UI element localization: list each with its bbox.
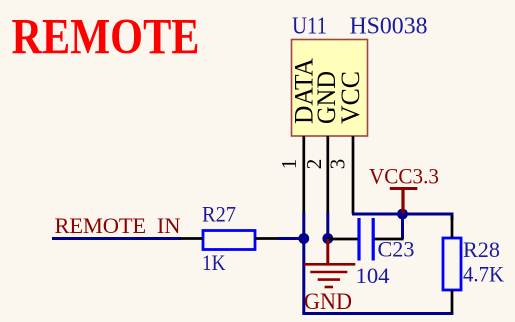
capacitor C23 right pin (375, 238, 404, 241)
svg-text:1: 1 (277, 159, 301, 170)
svg-text:HS0038: HS0038 (350, 14, 428, 40)
resistor R28 body (443, 238, 461, 290)
svg-text:VCC: VCC (335, 71, 365, 124)
wire REMOTE IN horizontal (52, 237, 181, 240)
svg-text:1K: 1K (202, 250, 226, 275)
resistor R28 top pin (451, 216, 454, 239)
svg-text:R27: R27 (202, 202, 236, 227)
junction node B (322, 233, 333, 244)
ground symbol bar 3 (318, 278, 340, 281)
capacitor C23 left plate (357, 218, 360, 261)
power port VCC3.3 bar (390, 187, 418, 190)
svg-text:VCC3.3: VCC3.3 (369, 164, 439, 189)
svg-text:GND: GND (304, 289, 352, 314)
junction VCC node (397, 209, 408, 220)
wire bottom rail (302, 312, 453, 315)
resistor R27 right pin (255, 237, 279, 240)
svg-text:3: 3 (326, 159, 350, 170)
junction node A (298, 233, 309, 244)
ground symbol stem (326, 239, 329, 264)
svg-text:REMOTE: REMOTE (12, 10, 200, 66)
capacitor C23 left pin (328, 238, 358, 241)
pin 3 (VCC) (352, 136, 355, 214)
resistor R27 left pin (180, 237, 203, 240)
svg-text:U11: U11 (292, 14, 327, 40)
ground symbol bar 4 (325, 286, 333, 289)
wire R27 to node A (278, 237, 304, 240)
svg-text:C23: C23 (378, 237, 415, 262)
pin 1 (DATA) (302, 136, 305, 214)
pin 2 (GND) (326, 136, 329, 214)
resistor R28 bottom pin (451, 290, 454, 313)
wire pin2 down to node B (326, 213, 329, 239)
IC U11 body (292, 40, 368, 137)
ground symbol bar 2 (310, 271, 347, 274)
svg-text:2: 2 (302, 159, 326, 170)
resistor R27 body (203, 231, 255, 250)
wire VCC node down corner (451, 213, 454, 221)
svg-text:R28: R28 (463, 237, 500, 262)
wire VCC node down to cap level (401, 214, 404, 239)
svg-text:104: 104 (356, 263, 390, 288)
wire pin3 to VCC node (352, 213, 453, 216)
wire pin1 down to node A (302, 213, 305, 239)
ground symbol bar 1 (304, 263, 356, 266)
svg-text:REMOTE IN: REMOTE IN (55, 213, 181, 238)
capacitor C23 right plate (372, 218, 375, 261)
svg-text:4.7K: 4.7K (463, 262, 505, 287)
power port VCC3.3 stem (401, 189, 404, 214)
wire node A down (302, 239, 305, 315)
